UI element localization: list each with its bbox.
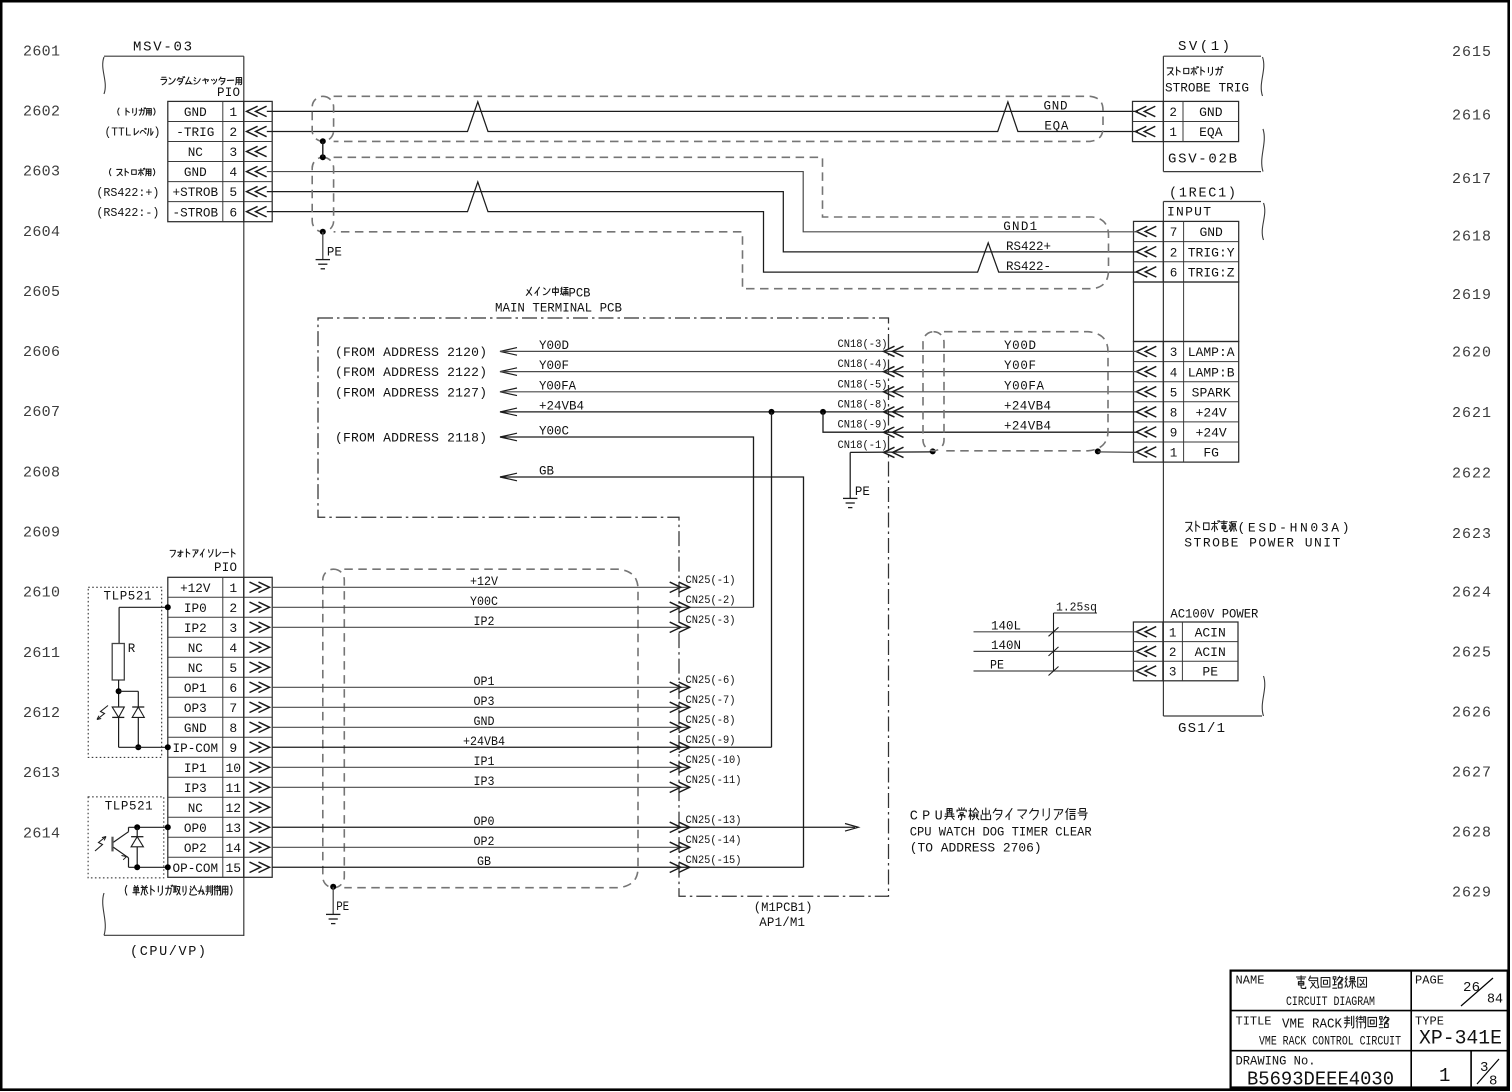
label GS1/1: [1178, 721, 1225, 737]
svg-text:SV(1): SV(1): [1178, 39, 1230, 55]
cable shield bundle 3 (CN18 harness): [923, 332, 1108, 451]
svg-text:DRAWING No.: DRAWING No.: [1236, 1054, 1316, 1069]
svg-text:R: R: [128, 642, 136, 656]
svg-text:5: 5: [229, 185, 237, 200]
svg-text:TRIG:Y: TRIG:Y: [1188, 245, 1235, 260]
svg-text:15: 15: [225, 861, 241, 876]
wire GB pin15 to CN25(-15): [272, 855, 803, 869]
wire -STROB to TRIG:Z (RS422-) with twist peaks: [267, 182, 1138, 272]
svg-text:NAME: NAME: [1236, 974, 1265, 988]
svg-text:IP1: IP1: [474, 755, 495, 769]
svg-text:GND: GND: [1044, 100, 1068, 114]
svg-text:CN25(-2): CN25(-2): [686, 595, 736, 607]
svg-text:2: 2: [1169, 105, 1177, 120]
svg-text:OP2: OP2: [184, 841, 207, 856]
svg-text:(TO ADDRESS 2706): (TO ADDRESS 2706): [910, 841, 1042, 856]
svg-text:+STROB: +STROB: [173, 185, 219, 200]
svg-text:(FROM ADDRESS 2122): (FROM ADDRESS 2122): [335, 365, 487, 380]
svg-text:CN25(-15): CN25(-15): [686, 855, 742, 867]
connector CN25(-10): [670, 755, 742, 773]
svg-text:6: 6: [229, 681, 237, 696]
annotation (TTL level) for pin2: [105, 127, 161, 140]
svg-text:PE: PE: [327, 246, 342, 260]
ground PE (PIO cable shield): [326, 900, 349, 924]
wire IP3 pin11 to CN25(-11): [272, 775, 690, 789]
wire +24VB4 pin9 to CN25(-9): [272, 735, 771, 749]
svg-text:14: 14: [225, 841, 241, 856]
svg-text:IP2: IP2: [184, 621, 207, 636]
svg-text:2627: 2627: [1452, 764, 1491, 781]
svg-text:OP2: OP2: [474, 835, 495, 849]
svg-text:+12V: +12V: [470, 575, 498, 589]
svg-text:GND: GND: [184, 721, 207, 736]
svg-text:+24VB4: +24VB4: [539, 399, 584, 413]
block MSV-03 (CPU/VP) outline: [104, 40, 244, 937]
svg-text:ACIN: ACIN: [1195, 625, 1226, 640]
svg-text:6: 6: [229, 205, 237, 220]
title sheet 1: [1439, 1065, 1450, 1087]
svg-text:RS422+: RS422+: [1006, 240, 1051, 254]
svg-text:PE: PE: [336, 900, 349, 914]
connector INPUT empty gap cell: [1134, 282, 1239, 342]
svg-text:-TRIG: -TRIG: [176, 125, 214, 140]
svg-text:2628: 2628: [1452, 824, 1491, 841]
wire GND pin1 to SV pin2: [267, 110, 1138, 112]
wire +24VB4 branch to CN18(-9): [823, 412, 1138, 432]
svg-text:2605: 2605: [23, 284, 60, 301]
svg-text:): ): [154, 127, 161, 140]
svg-text:CN18(-8): CN18(-8): [838, 399, 888, 411]
svg-text:STROBE TRIG: STROBE TRIG: [1165, 81, 1249, 96]
wire FG right segment: [1098, 451, 1138, 454]
svg-text:-STROB: -STROB: [173, 205, 219, 220]
svg-text:XP-341E: XP-341E: [1419, 1028, 1502, 1051]
svg-text:2624: 2624: [1452, 584, 1491, 601]
connector CN25(-2): [670, 595, 736, 613]
break squiggle MSV top-left: [103, 57, 106, 94]
svg-text:OP3: OP3: [184, 701, 207, 716]
svg-text:26: 26: [1463, 980, 1480, 996]
svg-text:Y00C: Y00C: [539, 425, 569, 439]
svg-text:2: 2: [229, 125, 237, 140]
title TYPE field: [1415, 1015, 1502, 1051]
svg-text:CN25(-10): CN25(-10): [686, 755, 742, 767]
svg-text:+24VB4: +24VB4: [1004, 420, 1051, 434]
svg-text:CN25(-8): CN25(-8): [686, 715, 736, 727]
svg-text:2614: 2614: [23, 825, 60, 842]
svg-text:5: 5: [1170, 385, 1178, 400]
svg-text:7: 7: [1170, 225, 1178, 240]
svg-text:TLP521: TLP521: [104, 590, 152, 604]
wire 140N: [974, 639, 1139, 653]
cable shield bundle 1 (GND/EQA pair): [312, 96, 1103, 141]
title block frame: [1231, 971, 1508, 1088]
svg-text:CN25(-3): CN25(-3): [686, 615, 736, 627]
svg-text:IP1: IP1: [184, 761, 207, 776]
svg-text:IP-COM: IP-COM: [173, 741, 219, 756]
svg-text:GND1: GND1: [1003, 220, 1037, 234]
svg-text:8: 8: [229, 721, 237, 736]
svg-text:GND: GND: [1199, 225, 1223, 240]
wire Y00FA with FROM ADDRESS 2127 arrow: [335, 379, 1138, 400]
wire Y00F with FROM ADDRESS 2122 arrow: [335, 359, 1138, 380]
svg-text:GSV-02B: GSV-02B: [1168, 152, 1237, 168]
svg-text:INPUT: INPUT: [1167, 205, 1211, 220]
svg-text:9: 9: [229, 741, 237, 756]
svg-text:OP1: OP1: [474, 675, 495, 689]
svg-text:VME RACK: VME RACK: [1282, 1018, 1343, 1033]
svg-text:CN18(-9): CN18(-9): [838, 420, 888, 432]
svg-text:2616: 2616: [1452, 108, 1491, 125]
svg-text:(M1PCB1): (M1PCB1): [754, 901, 813, 915]
connector CN25(-1): [670, 575, 736, 593]
svg-text:3: 3: [1480, 1060, 1488, 1076]
svg-text:(CPU/VP): (CPU/VP): [130, 945, 206, 960]
svg-text:AP1/M1: AP1/M1: [759, 916, 805, 930]
label (TO ADDRESS 2706): [910, 841, 1042, 856]
wire IP1 pin10 to CN25(-10): [272, 755, 690, 769]
svg-text:Y00D: Y00D: [539, 339, 569, 353]
svg-text:6: 6: [1170, 266, 1178, 281]
label strobe-trigger (Japanese): [1167, 67, 1223, 76]
svg-text:CN25(-9): CN25(-9): [686, 735, 736, 747]
label STROBE POWER UNIT: [1184, 536, 1340, 551]
wire gauge 1.25sq leader: [1049, 601, 1098, 676]
connector PIO (random shutter) table: [168, 101, 272, 221]
junction +24VB4 to CN25(-9): [769, 409, 775, 415]
light arrow into phototransistor: [95, 837, 106, 852]
cable labels GND1/RS422+/RS422-: [1003, 220, 1051, 274]
svg-text:GND: GND: [184, 105, 207, 120]
svg-text:1: 1: [1169, 625, 1177, 640]
svg-text:2612: 2612: [23, 705, 60, 722]
watchdog arrow to address 2706: [845, 824, 858, 832]
connector CN25(-11): [670, 775, 742, 793]
svg-text:8: 8: [1489, 1074, 1497, 1090]
svg-text:(FROM ADDRESS 2127): (FROM ADDRESS 2127): [335, 385, 487, 400]
svg-text:OP1: OP1: [184, 681, 207, 696]
wire 140L: [974, 619, 1139, 633]
title sheet 3/8: [1477, 1059, 1499, 1090]
svg-text:2611: 2611: [23, 645, 60, 662]
svg-text:2601: 2601: [23, 43, 60, 60]
svg-text:Y00F: Y00F: [539, 359, 569, 373]
svg-text:2613: 2613: [23, 765, 60, 782]
junction shield right dot: [1095, 448, 1101, 454]
svg-text:TLP521: TLP521: [105, 800, 153, 814]
title DRAWING No field: [1236, 1054, 1395, 1091]
svg-text:OP-COM: OP-COM: [173, 861, 219, 876]
svg-text:3: 3: [1169, 665, 1177, 680]
svg-text:ACIN: ACIN: [1195, 645, 1226, 660]
wire +12V pin1 to CN25(-1): [272, 575, 690, 589]
svg-text:GND: GND: [1199, 105, 1223, 120]
svg-text:(1REC1): (1REC1): [1169, 187, 1236, 202]
svg-text:2629: 2629: [1452, 884, 1491, 901]
junction shield left dot: [930, 448, 936, 454]
svg-text:LAMP:B: LAMP:B: [1188, 365, 1235, 380]
wire Y00C with FROM ADDRESS 2118 arrow: [335, 425, 754, 608]
svg-text:CN25(-7): CN25(-7): [686, 695, 736, 707]
svg-text:(FROM ADDRESS 2120): (FROM ADDRESS 2120): [335, 345, 487, 360]
svg-text:2607: 2607: [23, 404, 60, 421]
svg-text:GB: GB: [477, 855, 491, 869]
svg-text:IP3: IP3: [184, 781, 207, 796]
svg-text:CPU: CPU: [910, 810, 943, 825]
junction +24VB4 to CN18(-9): [820, 409, 826, 415]
cable shield bundle 2 (GND1/RS422 pair): [312, 157, 1108, 288]
svg-text:1: 1: [1169, 125, 1177, 140]
svg-text:PIO: PIO: [214, 561, 237, 575]
svg-text:1: 1: [229, 105, 237, 120]
svg-text:2615: 2615: [1452, 44, 1491, 61]
connector CN25(-6): [670, 675, 736, 693]
svg-text:VME RACK CONTROL CIRCUIT: VME RACK CONTROL CIRCUIT: [1259, 1034, 1401, 1049]
wire +STROB to TRIG:Y (RS422+): [267, 192, 1138, 252]
wire IP-COM return: [119, 744, 171, 750]
wire GB: [500, 465, 804, 868]
svg-text:4: 4: [229, 641, 237, 656]
svg-text:CN25(-14): CN25(-14): [686, 835, 742, 847]
svg-text:IP2: IP2: [474, 615, 495, 629]
svg-text:CN18(-4): CN18(-4): [838, 359, 888, 371]
annotation (strobe-yo) for pin4: [109, 168, 154, 175]
break squiggle INPUT top-right: [1262, 203, 1265, 240]
diode D2 (reverse protection): [132, 691, 144, 750]
svg-text:8: 8: [1170, 405, 1178, 420]
label CPU watchdog timer clear (Japanese): [910, 808, 1088, 825]
svg-text:2619: 2619: [1452, 287, 1491, 304]
connector CN18(-5): [838, 379, 904, 397]
wire Y00D with FROM ADDRESS 2120 arrow: [335, 339, 1138, 360]
svg-text:84: 84: [1487, 992, 1503, 1008]
svg-text:2604: 2604: [23, 224, 60, 241]
svg-text:NC: NC: [188, 801, 203, 816]
block GSV-02B outline: [1163, 39, 1261, 172]
svg-text:LAMP:A: LAMP:A: [1188, 345, 1235, 360]
wire IP0 into TLP521: [119, 604, 171, 643]
svg-text:TRIG:Z: TRIG:Z: [1188, 266, 1235, 281]
svg-text:PE: PE: [1202, 665, 1218, 680]
svg-text:2622: 2622: [1452, 465, 1491, 482]
svg-text:B5693DEEE4030: B5693DEEE4030: [1247, 1069, 1394, 1091]
svg-text:GND: GND: [184, 165, 207, 180]
svg-text:FG: FG: [1203, 446, 1219, 461]
light arrow out of LED: [97, 706, 108, 720]
connector CN25(-7): [670, 695, 736, 713]
svg-text:3: 3: [229, 145, 237, 160]
ground PE (CN18): [843, 485, 870, 508]
svg-text:+24VB4: +24VB4: [1004, 399, 1051, 413]
label GSV-02B: [1168, 152, 1237, 168]
svg-text:NC: NC: [188, 661, 203, 676]
wire OP0 rail: [129, 824, 171, 830]
annotation (triga-yo) for pin1: [118, 108, 155, 116]
optocoupler U1 TLP521 input side box: [88, 587, 162, 757]
wire +24VB4 riser CN25(-9) to rail: [771, 412, 773, 747]
connector INPUT rows 7/2/6: [1134, 221, 1239, 282]
grid row labels left (2601-2614): [23, 43, 60, 842]
wire OP2 pin14 to CN25(-14): [272, 835, 690, 849]
svg-text:CN25(-13): CN25(-13): [686, 815, 742, 827]
svg-text:PIO: PIO: [217, 86, 240, 100]
connector CN18(-9): [838, 420, 904, 438]
svg-text:CN18(-5): CN18(-5): [838, 379, 888, 391]
wire OP3 pin7 to CN25(-7): [272, 695, 690, 709]
svg-text:3: 3: [1170, 345, 1178, 360]
break squiggle GSV bottom-right: [1262, 129, 1265, 172]
svg-text:SPARK: SPARK: [1192, 385, 1231, 400]
svg-text:(RS422:-): (RS422:-): [96, 206, 159, 220]
wire PE (AC): [974, 659, 1139, 673]
svg-text:2609: 2609: [23, 525, 60, 542]
svg-text:(FROM ADDRESS 2118): (FROM ADDRESS 2118): [335, 431, 487, 446]
svg-text:2623: 2623: [1452, 526, 1491, 543]
label (M1PCB1): [754, 901, 813, 915]
annotation (RS422:-) for pin6: [96, 206, 159, 220]
label STROBE TRIG: [1165, 81, 1249, 96]
wire GND pin8 to CN25(-8): [272, 715, 690, 729]
svg-text:2: 2: [1170, 245, 1178, 260]
svg-text:Y00FA: Y00FA: [1004, 379, 1044, 393]
connector PIO (photo isolate) table: [168, 577, 272, 877]
svg-text:EQA: EQA: [1199, 125, 1223, 140]
connector CN25(-14): [670, 835, 742, 853]
label strobe power unit (Japanese) ESD-HN03A: [1186, 521, 1350, 536]
wire +24VB4 main rail: [500, 399, 1138, 415]
svg-text:10: 10: [225, 761, 241, 776]
resistor R: [112, 642, 136, 680]
svg-text:2625: 2625: [1452, 644, 1491, 661]
svg-text:13: 13: [225, 821, 241, 836]
wire OP0 pin13 to CN25(-13): [272, 815, 855, 829]
connector CN18(-3): [838, 339, 904, 357]
svg-text:STROBE POWER UNIT: STROBE POWER UNIT: [1184, 536, 1340, 551]
svg-text:CN18(-3): CN18(-3): [838, 339, 888, 351]
break squiggle MSV bottom-left: [103, 893, 244, 935]
connector CN25(-15): [670, 855, 742, 873]
label AP1/M1: [759, 916, 805, 930]
svg-text:MAIN TERMINAL PCB: MAIN TERMINAL PCB: [495, 301, 622, 316]
title NAME field: [1236, 974, 1376, 1010]
svg-text:7: 7: [229, 701, 237, 716]
wire OP-COM rail: [129, 864, 171, 870]
label photo-isolate PIO (Japanese): [170, 549, 237, 575]
wire -TRIG/EQA pin2 to SV pin1 (with twist peaks): [267, 102, 1138, 132]
svg-text:3: 3: [229, 621, 237, 636]
svg-text:CN18(-1): CN18(-1): [838, 440, 888, 452]
label CPU WATCH DOG TIMER CLEAR: [910, 825, 1092, 840]
svg-text:GND: GND: [474, 715, 495, 729]
svg-text:2618: 2618: [1452, 229, 1491, 246]
svg-text:+12V: +12V: [180, 581, 211, 596]
svg-text:PE: PE: [990, 659, 1004, 673]
connector CN25(-13): [670, 815, 742, 833]
svg-text:IP0: IP0: [184, 601, 207, 616]
grid row labels right (2615-2629): [1452, 44, 1491, 901]
svg-text:CIRCUIT DIAGRAM: CIRCUIT DIAGRAM: [1286, 994, 1375, 1009]
svg-text:PAGE: PAGE: [1415, 974, 1444, 988]
svg-text:12: 12: [225, 801, 241, 816]
svg-text:Y00FA: Y00FA: [539, 379, 576, 393]
connector CN25(-9): [670, 735, 736, 753]
svg-text:2620: 2620: [1452, 344, 1491, 361]
svg-text:OP0: OP0: [474, 815, 495, 829]
svg-text:(ESD-HN03A): (ESD-HN03A): [1238, 521, 1350, 536]
svg-text:4: 4: [229, 165, 237, 180]
svg-text:PCB: PCB: [569, 287, 591, 301]
optocoupler U2 TLP521 output side box: [88, 797, 164, 878]
connector CN18(-4): [838, 359, 904, 377]
svg-text:GB: GB: [539, 465, 554, 479]
wire FG left segment with PE drop: [850, 452, 933, 499]
annotation (RS422:+) for pin5: [96, 186, 159, 200]
break squiggle GS bottom-right: [1262, 676, 1265, 716]
svg-text:2610: 2610: [23, 585, 60, 602]
svg-text:RS422-: RS422-: [1006, 260, 1051, 274]
connector CN25(-8): [670, 715, 736, 733]
connector CN18(-1): [838, 440, 904, 458]
svg-text:Y00F: Y00F: [1004, 359, 1036, 373]
cable labels GND/EQA: [1044, 100, 1069, 134]
svg-text:CN25(-1): CN25(-1): [686, 575, 736, 587]
shield junction dot and PE drop (PIO cable): [330, 884, 336, 915]
svg-text:NC: NC: [188, 145, 203, 160]
connector CN25(-3): [670, 615, 736, 633]
svg-text:1: 1: [229, 581, 237, 596]
svg-text:OP0: OP0: [184, 821, 207, 836]
label INPUT: [1167, 205, 1211, 220]
svg-text:140N: 140N: [991, 639, 1021, 653]
svg-text:2617: 2617: [1452, 171, 1491, 188]
svg-text:Y00C: Y00C: [470, 595, 498, 609]
svg-text:+24V: +24V: [1196, 426, 1227, 441]
ground PE (top cable shield): [316, 246, 342, 269]
svg-text:EQA: EQA: [1044, 120, 1068, 134]
label MAIN TERMINAL PCB: [495, 301, 622, 316]
connector SV(1) table pins 2/1: [1133, 101, 1239, 141]
title TITLE field: [1236, 1015, 1402, 1049]
svg-text:2608: 2608: [23, 464, 60, 481]
wire Y00C pin2 to CN25(-2): [272, 595, 753, 609]
connector INPUT rows 3/4/5/8/9/1: [1134, 342, 1239, 463]
connector AC100V rows 1/2/3: [1133, 622, 1238, 681]
svg-text:TITLE: TITLE: [1236, 1015, 1272, 1029]
cable shield bundle 4 (PIO harness): [323, 569, 638, 888]
svg-text:+24V: +24V: [1196, 405, 1227, 420]
label main-relay PCB (Japanese): [526, 287, 591, 301]
svg-text:4: 4: [1170, 365, 1178, 380]
svg-text:CN25(-11): CN25(-11): [686, 775, 742, 787]
wire IP2 pin3 to CN25(-3): [272, 615, 690, 629]
annotation single-trigger control (Japanese): [125, 885, 232, 895]
svg-text:(TTL: (TTL: [105, 127, 132, 140]
connector CN18(-8): [838, 399, 904, 417]
title PAGE field: [1415, 974, 1503, 1008]
svg-text:9: 9: [1170, 426, 1178, 441]
svg-text:1.25sq: 1.25sq: [1056, 601, 1097, 615]
svg-text:2626: 2626: [1452, 705, 1491, 722]
cable labels Y00D/Y00F/Y00FA/+24VB4/+24VB4: [1004, 339, 1051, 434]
svg-text:2621: 2621: [1452, 405, 1491, 422]
block strobe power unit outline: [1163, 187, 1262, 717]
svg-text:2606: 2606: [23, 344, 60, 361]
wire GND pin4 to INPUT pin7 (GND1): [267, 172, 1138, 232]
svg-text:2603: 2603: [23, 164, 60, 181]
svg-text:1: 1: [1170, 446, 1178, 461]
svg-text:11: 11: [225, 781, 241, 796]
svg-text:2602: 2602: [23, 103, 60, 120]
